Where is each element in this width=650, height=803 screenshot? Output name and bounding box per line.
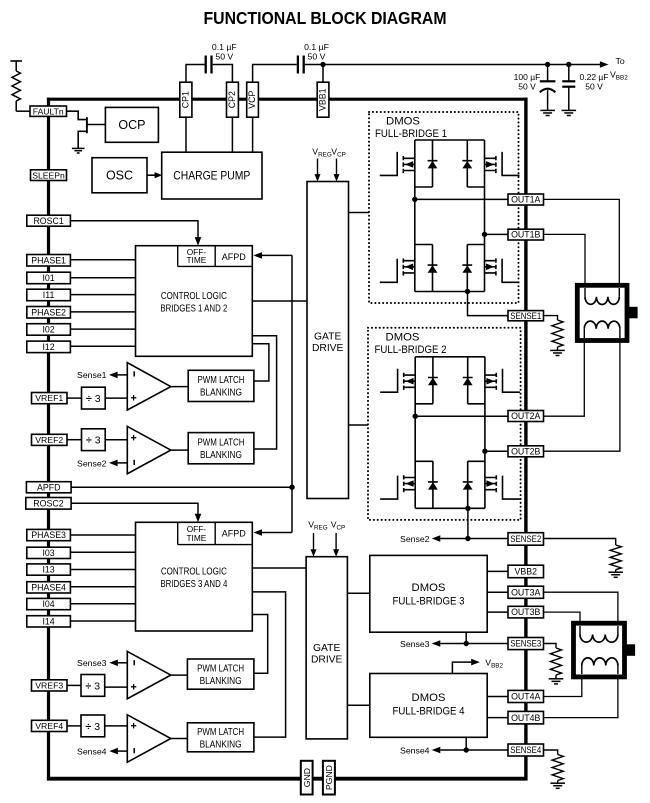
ground at R3 xyxy=(549,678,564,680)
wire gate drive 2 to bridge 3 xyxy=(347,592,369,594)
wire PWM latch 1 to control logic 1 xyxy=(252,344,269,381)
wire control logic 1 to gate drive 1 xyxy=(252,300,307,302)
wire bridge 4 to OUT4B xyxy=(487,717,508,719)
svg-text:PHASE1: PHASE1 xyxy=(31,255,66,265)
wire capacitor C2 to VBB1 xyxy=(305,65,323,83)
comparator 3 xyxy=(127,651,171,698)
wire bridge 3 bottom to Sense3 xyxy=(465,632,467,643)
wire PWM latch 4 to control logic 2 xyxy=(252,592,285,737)
pin SENSE3 xyxy=(508,638,544,650)
pin PHASE1 xyxy=(27,255,71,267)
svg-text:PHASE4: PHASE4 xyxy=(31,582,66,592)
pin ROSC1 xyxy=(27,215,71,226)
arrow to VBB2 xyxy=(600,61,609,68)
pin ROSC2 xyxy=(26,498,71,510)
wire OUT2B to load 1 xyxy=(544,338,620,451)
svg-text:TIME: TIME xyxy=(186,533,206,543)
wire comparator 3 to PWM latch 3 xyxy=(171,674,188,676)
pin PGND xyxy=(323,761,335,795)
wire bridge 2 to OUT2B xyxy=(485,450,508,452)
svg-text:BLANKING: BLANKING xyxy=(200,740,242,751)
svg-text:BLANKING: BLANKING xyxy=(200,676,242,687)
pin I14 xyxy=(27,616,71,627)
wire Sense4 to SENSE4 pin xyxy=(440,749,508,751)
svg-text:FULL-BRIDGE 3: FULL-BRIDGE 3 xyxy=(393,596,465,608)
svg-text:Sense1: Sense1 xyxy=(77,370,107,380)
svg-text:BRIDGES 3 AND 4: BRIDGES 3 AND 4 xyxy=(160,579,227,590)
pin I02 xyxy=(27,324,71,336)
wire SENSE2 to resistor R2 xyxy=(544,539,616,546)
wire bridge 4 to OUT4A xyxy=(487,696,508,698)
node Sense3 junction xyxy=(464,641,469,646)
pin CP2 xyxy=(227,82,239,117)
block off-time 1 xyxy=(177,246,179,267)
wire OUT3A to load 2 xyxy=(544,592,618,626)
pin GND xyxy=(301,761,313,795)
arrow into off-time 1 xyxy=(195,237,202,246)
block PWM latch blanking 4 xyxy=(187,723,254,752)
svg-text:OCP: OCP xyxy=(118,118,145,132)
svg-text:I04: I04 xyxy=(42,599,54,609)
arrow OSC to charge pump xyxy=(155,172,163,178)
DMOS full-bridge 2 transistors xyxy=(380,357,520,509)
svg-text:CONTROL LOGIC: CONTROL LOGIC xyxy=(161,567,227,578)
svg-text:VREF1: VREF1 xyxy=(35,393,63,403)
pin VREF3 wire xyxy=(67,684,81,686)
node junction 0.22uF cap xyxy=(566,62,571,67)
svg-text:÷ 3: ÷ 3 xyxy=(86,681,101,693)
node Sense4 junction xyxy=(464,747,469,752)
svg-text:FULL-BRIDGE 4: FULL-BRIDGE 4 xyxy=(393,706,465,718)
arrow Sense3 comparator xyxy=(109,660,118,667)
node OUT1A junction xyxy=(412,197,417,202)
svg-text:Sense3: Sense3 xyxy=(400,639,430,649)
node OUT2B junction xyxy=(482,449,487,454)
svg-text:100 µF: 100 µF xyxy=(514,72,541,82)
node OUT1B junction xyxy=(482,232,487,237)
arrow Sense3 pin side xyxy=(432,640,441,647)
svg-text:I13: I13 xyxy=(42,565,54,575)
svg-text:0.1 µF: 0.1 µF xyxy=(304,42,329,52)
block gate drive 2 xyxy=(306,557,347,739)
pin CP1 xyxy=(180,82,192,117)
pin PHASE2 xyxy=(27,307,71,319)
wire VCP to charge pump xyxy=(252,117,254,152)
pin APFD xyxy=(26,482,71,493)
svg-text:÷ 3: ÷ 3 xyxy=(86,721,101,733)
svg-text:OUT2A: OUT2A xyxy=(511,411,540,421)
wire PWM latch 3 to control logic 2 xyxy=(252,615,267,674)
pin I01 xyxy=(27,272,71,284)
wire SENSE1 to resistor R1 xyxy=(544,316,558,320)
wire Sense3 to SENSE3 pin xyxy=(440,643,508,645)
wire comparator 2 to PWM latch 2 xyxy=(171,449,188,451)
wire CP1 to capacitor C1 xyxy=(186,65,205,83)
wire APFD pin net xyxy=(71,486,292,488)
wire SENSE4 to resistor R4 xyxy=(544,750,558,755)
block control logic bridges 1 and 2 xyxy=(136,246,253,357)
svg-text:VCP: VCP xyxy=(247,91,257,109)
svg-text:0.22 µF: 0.22 µF xyxy=(580,72,609,82)
svg-text:I01: I01 xyxy=(42,273,54,283)
load 2 tab xyxy=(625,644,636,656)
load 2 bottom coil xyxy=(581,666,583,675)
divider div3 block 1 xyxy=(82,387,106,409)
svg-text:ROSC2: ROSC2 xyxy=(33,498,63,508)
svg-text:OUT4A: OUT4A xyxy=(511,692,540,702)
pin VREF1 wire xyxy=(67,397,82,399)
svg-text:VBB2: VBB2 xyxy=(485,658,503,670)
svg-text:VREG: VREG xyxy=(312,146,332,158)
svg-text:DRIVE: DRIVE xyxy=(311,655,343,666)
arrow Sense4 pin side xyxy=(432,747,441,754)
svg-text:SLEEPn: SLEEPn xyxy=(32,170,65,180)
svg-text:VREF2: VREF2 xyxy=(35,435,63,445)
svg-text:AFPD: AFPD xyxy=(222,252,247,262)
wire control logic 2 to gate drive 2 xyxy=(252,567,306,569)
svg-text:GATE: GATE xyxy=(313,643,340,654)
divider div3 block 3 xyxy=(81,675,105,697)
wire PHASE1 to control logic 1 xyxy=(70,259,135,261)
pin I12 xyxy=(27,341,71,353)
pin VBB1 xyxy=(317,82,329,117)
svg-text:DMOS: DMOS xyxy=(412,582,446,594)
load 1 top coil xyxy=(584,288,586,297)
wire bridge 1 to OUT1A xyxy=(415,198,508,200)
svg-text:VREF4: VREF4 xyxy=(35,721,63,731)
pin VREF4 xyxy=(32,720,68,731)
svg-text:TIME: TIME xyxy=(186,255,206,265)
pin VREF3 xyxy=(32,680,68,691)
pin OUT4B xyxy=(508,711,544,724)
pin FAULTn xyxy=(30,106,67,116)
svg-text:PHASE2: PHASE2 xyxy=(31,307,66,317)
wire I04 to control logic 2 xyxy=(70,603,135,605)
resistor R2 sense 2 xyxy=(610,545,621,570)
ground at R1 xyxy=(550,349,565,351)
wire capacitor C1 to CP2 xyxy=(213,65,233,83)
capacitor C3 100uF xyxy=(547,65,549,82)
svg-text:VREG: VREG xyxy=(308,519,328,531)
svg-text:FUNCTIONAL BLOCK DIAGRAM: FUNCTIONAL BLOCK DIAGRAM xyxy=(204,8,447,28)
pin OUT4A xyxy=(508,690,544,702)
divider div3 block 4 xyxy=(81,715,105,737)
wire I01 to control logic 1 xyxy=(70,277,135,279)
wire CP1 to charge pump xyxy=(185,117,187,152)
svg-text:ROSC1: ROSC1 xyxy=(33,216,63,226)
svg-text:SENSE3: SENSE3 xyxy=(510,639,541,649)
svg-text:OUT3A: OUT3A xyxy=(511,587,540,597)
svg-text:÷ 3: ÷ 3 xyxy=(86,435,101,447)
pin I04 xyxy=(27,598,71,609)
svg-text:SENSE2: SENSE2 xyxy=(510,534,541,544)
wire PHASE3 to control logic 2 xyxy=(70,534,135,536)
svg-text:CP1: CP1 xyxy=(180,91,190,108)
IC boundary top border xyxy=(47,98,528,101)
ground at Q1 xyxy=(72,147,85,149)
wire gate drive 2 to bridge 4 xyxy=(347,704,369,706)
svg-text:I02: I02 xyxy=(42,325,54,335)
node VBB1 top junction xyxy=(320,62,325,67)
pin PHASE3 xyxy=(27,529,71,540)
svg-text:DMOS: DMOS xyxy=(386,331,420,343)
DMOS full-bridge 1 transistors xyxy=(380,140,520,292)
wire bridge 2 to Sense2 line xyxy=(467,508,469,538)
pin VREF4 wire xyxy=(67,725,81,727)
svg-text:Sense4: Sense4 xyxy=(77,747,107,757)
wire bridge 3 to OUT3A xyxy=(487,591,508,593)
arrow Sense2 pin side xyxy=(432,535,441,542)
node Sense2 junction xyxy=(465,536,470,541)
load 2 top coil xyxy=(579,626,581,635)
svg-text:GATE: GATE xyxy=(314,332,341,343)
arrow VBB2 bridge 4 xyxy=(471,659,480,666)
resistor R3 sense 3 xyxy=(550,648,561,675)
supply stub tee xyxy=(10,60,22,62)
block DMOS full-bridge 4 xyxy=(370,674,487,738)
wire into AFPD 1 xyxy=(261,254,292,256)
IC boundary bottom border xyxy=(47,777,528,781)
wire OUT4B to load 2 xyxy=(544,674,618,718)
ground at C4 xyxy=(562,109,577,111)
wire comparator 1 to PWM latch 1 xyxy=(171,386,188,388)
pin VREF2 wire xyxy=(67,439,82,441)
pin VREF1 xyxy=(32,393,68,404)
load 1 tab xyxy=(627,307,638,319)
wire gate drive 1 to bridge 2 xyxy=(349,424,369,426)
svg-text:CONTROL LOGIC: CONTROL LOGIC xyxy=(161,291,227,302)
svg-text:AFPD: AFPD xyxy=(222,529,247,539)
svg-text:50 V: 50 V xyxy=(585,81,603,91)
wire bridge 4 to VBB2 arrow xyxy=(452,662,471,673)
svg-text:CHARGE PUMP: CHARGE PUMP xyxy=(173,169,250,183)
svg-text:PWM LATCH: PWM LATCH xyxy=(197,727,244,738)
block PWM latch blanking 2 xyxy=(188,433,254,464)
comparator 1 xyxy=(127,363,171,410)
svg-text:BLANKING: BLANKING xyxy=(200,450,242,461)
wire bridge 2 to OUT2A xyxy=(415,415,508,417)
wire gate drive 1 to bridge 1 xyxy=(349,212,370,214)
wire ROSC1 to off-time 1 xyxy=(70,221,198,239)
wire PWM latch 2 to control logic 1 xyxy=(252,336,276,449)
svg-text:OSC: OSC xyxy=(106,169,133,183)
svg-text:BLANKING: BLANKING xyxy=(200,388,242,399)
svg-text:To: To xyxy=(616,56,625,66)
wire OUT1A to load 1 xyxy=(544,199,620,288)
svg-text:Sense3: Sense3 xyxy=(77,658,107,668)
arrow Sense1 xyxy=(109,372,118,379)
wire VCP to capacitor C2 xyxy=(253,65,297,83)
arrow into off-time 2 xyxy=(195,514,202,523)
wire div3 to comparator 2 xyxy=(105,439,127,441)
svg-text:VCP: VCP xyxy=(331,519,346,531)
load 2 motor winding xyxy=(574,623,625,677)
svg-text:VCP: VCP xyxy=(331,146,346,158)
arrow VREG into gate drive 1 xyxy=(317,159,319,176)
svg-text:I11: I11 xyxy=(43,290,55,300)
pin SENSE4 xyxy=(508,744,544,756)
block PWM latch blanking 3 xyxy=(187,659,254,689)
svg-text:VBB2: VBB2 xyxy=(515,567,538,577)
svg-text:DMOS: DMOS xyxy=(386,116,420,128)
wire into AFPD 2 xyxy=(261,532,292,534)
svg-text:BRIDGES 1 AND 2: BRIDGES 1 AND 2 xyxy=(160,304,227,315)
svg-text:FAULTn: FAULTn xyxy=(33,106,64,116)
pin OUT1B xyxy=(508,229,544,240)
pin I11 xyxy=(27,289,71,301)
wire Q1 source to ground xyxy=(78,131,86,148)
IC boundary left border xyxy=(47,98,50,781)
pin OUT1A xyxy=(508,194,544,205)
arrow Sense2 comparator xyxy=(109,460,118,467)
pin I13 xyxy=(27,564,71,575)
wire Q1 drain to OCP xyxy=(87,124,106,126)
wire bridge 1 to OUT1B xyxy=(485,233,509,235)
block DMOS full-bridge 3 xyxy=(370,555,487,632)
ground at R2 xyxy=(608,571,623,573)
resistor pull-up on FAULTn xyxy=(15,61,17,71)
wire I11 to control logic 1 xyxy=(70,294,135,296)
ground at C3 xyxy=(540,109,555,111)
pin VBB2 xyxy=(508,565,544,578)
svg-text:0.1 µF: 0.1 µF xyxy=(212,42,237,52)
wire CP2 to charge pump xyxy=(231,117,233,152)
svg-text:PGND: PGND xyxy=(324,765,334,790)
ground at R4 xyxy=(550,782,565,784)
arrow VCP into gate drive 2 xyxy=(335,533,337,550)
arrow VREG into gate drive 2 xyxy=(313,533,315,550)
DMOS full-bridge 1 dashed box xyxy=(369,112,519,303)
svg-text:Sense4: Sense4 xyxy=(400,746,430,756)
svg-text:DRIVE: DRIVE xyxy=(312,343,344,354)
svg-text:VBB2: VBB2 xyxy=(610,70,628,82)
wire VBB1 to VBB2 rail xyxy=(323,64,601,66)
wire bridge 3 to VBB2 pin xyxy=(487,570,508,572)
svg-text:50 V: 50 V xyxy=(518,81,536,91)
wire FAULTn to Q1 gate xyxy=(67,111,86,119)
svg-text:PWM LATCH: PWM LATCH xyxy=(198,438,245,449)
block off-time 2 xyxy=(177,522,179,544)
wire PHASE2 to control logic 1 xyxy=(70,311,135,313)
svg-text:PWM LATCH: PWM LATCH xyxy=(197,663,244,674)
wire OUT3B to load 2 xyxy=(544,612,581,626)
svg-text:SENSE4: SENSE4 xyxy=(510,745,541,755)
pin OUT3B xyxy=(508,606,544,618)
svg-text:I03: I03 xyxy=(42,548,54,558)
wire I12 to control logic 1 xyxy=(70,345,135,347)
node APFD junction xyxy=(289,485,294,490)
wire div3 to comparator 3 xyxy=(105,686,128,688)
wire Sense2 to SENSE2 pin xyxy=(440,538,508,540)
comparator 4 xyxy=(127,715,171,762)
wire comparator 4 to PWM latch 4 xyxy=(171,738,188,740)
pin SENSE1 xyxy=(508,311,544,321)
wire OSC to charge pump xyxy=(147,174,155,176)
svg-text:SENSE1: SENSE1 xyxy=(510,311,541,321)
svg-text:OUT1B: OUT1B xyxy=(511,230,540,240)
svg-text:PWM LATCH: PWM LATCH xyxy=(198,375,245,386)
pin I03 xyxy=(27,547,71,558)
wire div3 to comparator 4 xyxy=(105,725,128,727)
DMOS full-bridge 2 dashed box xyxy=(368,328,521,520)
block OSC xyxy=(92,158,147,193)
svg-text:I14: I14 xyxy=(42,616,54,626)
wire PHASE4 to control logic 2 xyxy=(70,586,135,588)
svg-text:Sense2: Sense2 xyxy=(77,458,107,468)
wire OUT2A to load 1 xyxy=(544,338,585,416)
wire div3 to comparator 1 xyxy=(105,397,127,399)
svg-text:I12: I12 xyxy=(42,342,54,352)
pin VCP xyxy=(247,82,259,117)
pin SLEEPn xyxy=(31,170,67,181)
svg-text:OUT1A: OUT1A xyxy=(511,195,540,205)
wire I02 to control logic 1 xyxy=(70,328,135,330)
node sense 2 bottom rail junction xyxy=(465,506,470,511)
node junction 100uF cap xyxy=(545,62,550,67)
wire I13 to control logic 2 xyxy=(70,569,135,571)
node SENSE1 junction xyxy=(465,289,470,294)
block charge pump xyxy=(162,152,262,199)
pin OUT2A xyxy=(508,411,544,422)
node OUT2A junction xyxy=(413,414,418,419)
arrow VCP into gate drive 1 xyxy=(336,159,338,176)
wire OUT4A to load 2 xyxy=(544,674,582,697)
block gate drive 1 xyxy=(307,182,349,499)
divider div3 block 2 xyxy=(82,429,106,451)
svg-text:APFD: APFD xyxy=(37,482,60,492)
capacitor C2 0.1uF xyxy=(297,56,299,74)
arrow Sense4 comparator xyxy=(109,748,118,755)
wire bridge 1 to SENSE1 xyxy=(468,292,509,316)
svg-text:PHASE3: PHASE3 xyxy=(31,530,66,540)
wire AFPD vertical net xyxy=(291,255,293,532)
pin SENSE2 xyxy=(508,533,544,546)
svg-text:FULL-BRIDGE 1: FULL-BRIDGE 1 xyxy=(375,128,447,140)
pin OUT3A xyxy=(508,586,544,598)
wire resistor to FAULTn xyxy=(16,110,30,112)
comparator 2 xyxy=(127,426,171,473)
svg-text:OUT3B: OUT3B xyxy=(511,607,540,617)
wire bridge 3 to OUT3B xyxy=(487,611,508,613)
svg-text:FULL-BRIDGE 2: FULL-BRIDGE 2 xyxy=(375,344,447,356)
pin VREF2 xyxy=(32,434,68,445)
svg-text:OUT4B: OUT4B xyxy=(511,713,540,723)
svg-text:CP2: CP2 xyxy=(227,91,237,108)
svg-text:50 V: 50 V xyxy=(215,52,233,62)
load 1 bottom coil xyxy=(583,329,585,338)
svg-text:Sense2: Sense2 xyxy=(400,534,430,544)
resistor R1 sense 1 xyxy=(552,320,563,347)
IC boundary right border xyxy=(524,98,527,781)
capacitor C1 0.1uF xyxy=(205,56,207,74)
load 1 motor winding xyxy=(577,285,627,340)
block OCP xyxy=(105,107,158,142)
svg-text:GND: GND xyxy=(302,768,312,787)
wire I03 to control logic 2 xyxy=(70,551,135,553)
svg-text:OUT2B: OUT2B xyxy=(511,446,540,456)
svg-text:÷ 3: ÷ 3 xyxy=(86,393,101,405)
svg-text:DMOS: DMOS xyxy=(412,692,446,704)
wire bridge 4 bottom to Sense4 xyxy=(465,737,467,750)
pin PHASE4 xyxy=(27,582,71,593)
transistor Q1 open-drain xyxy=(86,117,88,133)
block control logic bridges 3 and 4 xyxy=(136,522,253,631)
wire I14 to control logic 2 xyxy=(70,620,135,622)
svg-text:VREF3: VREF3 xyxy=(35,681,63,691)
wire OUT1B to load 1 xyxy=(544,234,586,288)
capacitor C4 0.22uF xyxy=(568,65,570,82)
resistor R4 sense 4 xyxy=(552,755,563,781)
